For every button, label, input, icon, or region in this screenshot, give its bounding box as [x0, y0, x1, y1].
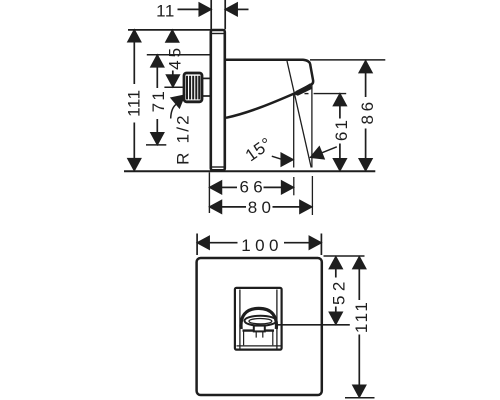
extension line for 71 top [147, 54, 210, 56]
svg-text:111: 111 [125, 89, 144, 117]
spout tip extension line (80 ref) [311, 85, 313, 168]
svg-text:66: 66 [239, 178, 267, 197]
svg-text:86: 86 [358, 98, 377, 124]
svg-text:61: 61 [332, 118, 351, 141]
spout mouth arch [241, 308, 276, 329]
mouth bottom line [243, 329, 275, 331]
outlet ellipse outer [245, 316, 277, 326]
spout body (side view) [226, 60, 314, 118]
dimension 61 [305, 94, 347, 171]
spout housing (front view) [235, 288, 282, 350]
angle reference line (vertical) [293, 93, 295, 168]
dimension 11 (plate thickness) [178, 3, 249, 15]
dimension 111 (side view height) [128, 30, 140, 170]
svg-text:45: 45 [166, 45, 185, 70]
dimension 15deg leader [272, 147, 337, 166]
spout outlet (filled) [293, 83, 312, 96]
escutcheon plate (front view) [197, 258, 322, 395]
dimension 100 [198, 237, 321, 249]
dimension 86 [310, 60, 385, 170]
left extension line below wall (66/80 left ref) [208, 172, 210, 213]
svg-text:15°: 15° [242, 134, 276, 166]
dimension 111 (front view) [345, 257, 375, 398]
svg-text:11: 11 [156, 1, 175, 20]
knob stem [203, 78, 210, 96]
plate thickness extension lines above [210, 0, 212, 29]
outlet level reference line (52 bottom) [278, 324, 350, 326]
angle reference line (slanted, 15 deg) [287, 61, 311, 168]
dimension 66 [210, 181, 293, 193]
outlet ellipse inner [249, 319, 272, 324]
svg-text:52: 52 [329, 277, 348, 305]
R 1/2 leader and arrow [171, 91, 188, 119]
dimension 45 [164, 30, 182, 87]
dimension 80 [210, 201, 312, 213]
tick below wall line (66/80 right ref) [293, 177, 295, 195]
wall/base line [124, 170, 375, 172]
top extension line for 52/111 [324, 255, 365, 257]
escutcheon plate (side view) [211, 30, 225, 170]
aerator nub [254, 326, 265, 332]
volume control knob (side view) [184, 73, 202, 102]
svg-text:R 1/2: R 1/2 [174, 113, 193, 165]
svg-text:111: 111 [352, 300, 371, 333]
svg-text:100: 100 [241, 236, 283, 255]
dimension 71 [146, 55, 166, 145]
dimension 100 extension lines [196, 234, 198, 256]
dimension 52 [330, 257, 342, 324]
svg-text:80: 80 [248, 198, 276, 217]
top extension line (plate top level) [128, 29, 226, 31]
svg-text:71: 71 [149, 89, 168, 113]
